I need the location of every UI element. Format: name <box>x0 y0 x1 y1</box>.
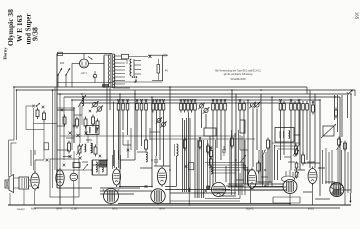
tube V9 mixer base <box>282 176 298 194</box>
arrow pot <box>83 164 88 170</box>
wire det v2 <box>259 150 263 184</box>
trimmer C t5 <box>156 117 162 123</box>
junction X extra <box>61 109 91 127</box>
wire right col verticals <box>323 148 349 193</box>
IF box 1b dark <box>99 161 107 168</box>
wire output to rail <box>10 189 24 205</box>
resistor R36 <box>293 144 300 157</box>
wire speaker <box>14 178 32 188</box>
label EF9a <box>56 207 62 211</box>
resistor R8 <box>155 99 158 113</box>
label 220V <box>60 61 65 65</box>
label AL4 <box>31 207 37 211</box>
resistor R v8b <box>257 161 261 174</box>
resistor R21 <box>243 101 246 113</box>
resistor R34 <box>231 136 234 149</box>
capacitor C m2 <box>222 146 226 156</box>
resistor R7 <box>152 99 155 113</box>
switch S2 mains <box>65 68 70 87</box>
wire left clutter <box>57 108 92 162</box>
resistor R37 <box>302 153 305 166</box>
resistor R32 <box>145 138 148 163</box>
resistor R18 <box>220 99 223 113</box>
tube V6 <box>158 166 167 187</box>
page number 165 <box>355 12 360 20</box>
svg-text:C 80: C 80 <box>71 207 77 211</box>
transformer secondary <box>113 54 115 88</box>
resistor R16 <box>212 99 215 113</box>
wire mid clutter <box>123 128 160 158</box>
resistor R23 <box>76 117 79 129</box>
capacitor C e1 <box>279 99 282 113</box>
resistor R6 <box>145 99 148 113</box>
transformer core <box>111 54 112 89</box>
box filter small <box>185 163 194 170</box>
label C80 <box>71 207 77 211</box>
capacitor C e5 <box>298 99 301 113</box>
resistor R d3 <box>199 137 202 150</box>
resistor R24 <box>84 117 87 129</box>
filament dots <box>132 76 138 78</box>
tube V5 EK2 base <box>103 189 119 204</box>
ground arrow right <box>349 193 351 203</box>
resistor R29 <box>94 145 97 157</box>
coil L n1 <box>211 167 212 175</box>
title 9/38 <box>31 27 40 41</box>
label AZ1 <box>81 71 87 75</box>
wire vertical runs <box>74 56 351 204</box>
capacitor C e4 <box>294 101 297 113</box>
resistor Rv1 <box>36 108 39 120</box>
coil L2 <box>85 144 86 152</box>
resistor R1 <box>117 99 120 113</box>
capacitor C e3 <box>290 99 293 113</box>
capacitor chain C g2 <box>295 162 298 170</box>
junction X left <box>44 143 49 162</box>
wire horizontal connectors <box>57 110 351 204</box>
label speaker <box>17 208 26 211</box>
tube V7b IF <box>212 183 226 197</box>
trimmer C t6 <box>160 121 166 127</box>
label EBF <box>246 207 254 211</box>
resistor R33 <box>184 138 187 151</box>
wire left border <box>56 54 58 189</box>
wire down x82 <box>81 106 83 125</box>
wire nested mid corners <box>244 163 248 185</box>
svg-text:Bei Verwendung der Type EK2 st: Bei Verwendung der Type EK2 statt ECH 11 <box>215 70 261 73</box>
tuning gang C v1 <box>92 101 99 108</box>
capacitor C m1 <box>154 156 158 166</box>
resistor R5 <box>140 99 143 113</box>
wire x162 <box>162 55 164 81</box>
resistor R22 <box>63 115 66 127</box>
wire down x97 <box>96 128 98 146</box>
note text line2 <box>224 73 253 76</box>
IF transformer box 1 <box>93 160 108 175</box>
tube V1 AL4 <box>31 171 39 191</box>
svg-text:EBF2: EBF2 <box>246 207 254 211</box>
switch cluster left <box>32 103 44 108</box>
svg-text:EF9: EF9 <box>56 207 62 211</box>
wire V1 top <box>31 150 44 173</box>
wire down x74 <box>73 108 75 171</box>
wire bus y100 <box>72 100 320 196</box>
resistor R26 <box>96 119 99 131</box>
switch contact X power <box>148 54 168 58</box>
capacitor C elko <box>93 71 97 83</box>
wire power mid <box>72 55 104 87</box>
resistor R19 <box>224 99 227 113</box>
speaker <box>5 175 14 193</box>
label 4V <box>165 69 168 73</box>
output transformer <box>19 177 29 189</box>
resistor R10 <box>162 99 165 113</box>
wire right mid clutter <box>240 135 345 205</box>
tube V2 EBC3 <box>56 168 64 188</box>
resistor R25 <box>92 115 95 127</box>
shield box V2V3 <box>50 159 79 197</box>
resistor tall R31 <box>240 120 245 133</box>
svg-text:165: 165 <box>355 12 360 20</box>
resistor R17 <box>216 99 219 113</box>
resistor R14 <box>190 99 193 113</box>
resistor R d4 <box>207 144 210 155</box>
wire nested right <box>272 143 300 149</box>
magic eye <box>330 183 344 197</box>
resistor Rv2 <box>43 111 46 123</box>
trimmer C t4 <box>254 102 261 109</box>
resistor R12 <box>183 99 186 113</box>
resistor R27 <box>68 141 71 154</box>
title und Super <box>26 14 33 45</box>
junction X5 <box>79 157 82 160</box>
resistor R n1 <box>209 146 212 159</box>
wire tube downleads <box>60 184 313 206</box>
resistor R35 <box>267 138 270 151</box>
svg-text:9/38: 9/38 <box>31 27 40 41</box>
wire V8 right pair <box>263 150 267 186</box>
resistor R20 <box>239 99 242 113</box>
svg-text:AL4: AL4 <box>31 207 37 211</box>
box right mid <box>275 128 294 143</box>
resistor R3 <box>126 99 129 113</box>
wire nested mid top <box>205 163 248 174</box>
wire bus y97 <box>64 97 340 190</box>
capacitor chain C g3 <box>294 171 299 180</box>
switch S1 mains <box>57 68 62 87</box>
capacitor C e2 <box>283 101 286 113</box>
svg-text:220: 220 <box>60 61 65 65</box>
rectifier tube AZ1 <box>72 54 95 69</box>
title Olympic 38 <box>6 9 15 46</box>
note text line1 <box>215 70 261 73</box>
wire bus y87 <box>14 85 307 95</box>
capacitor C d1 arrow <box>241 155 246 162</box>
wire top border <box>57 52 112 55</box>
wire power bottom <box>112 81 163 83</box>
svg-text:AZ 1: AZ 1 <box>81 71 87 75</box>
trimmer C t3 <box>249 102 256 109</box>
potentiometer box right <box>321 124 336 138</box>
fuse F1 <box>122 54 149 59</box>
svg-text:EF9: EF9 <box>159 207 165 211</box>
junction X6 <box>63 149 148 188</box>
resistor R n2 <box>209 157 212 168</box>
svg-text:EK2: EK2 <box>112 207 118 211</box>
transformer taps <box>114 56 121 88</box>
wire V9 loop <box>273 197 300 203</box>
wire left verticals <box>53 87 81 205</box>
wire speaker feed <box>9 87 17 177</box>
switch contact X3 <box>85 132 88 135</box>
label EF9b <box>159 207 165 211</box>
tube V4 EF9 <box>113 167 121 187</box>
note text line3 <box>230 78 246 81</box>
filament winding <box>130 59 134 76</box>
svg-text:gilt die punktierte Schaltung: gilt die punktierte Schaltung <box>224 73 253 76</box>
label EK2 <box>112 207 118 211</box>
wire bus y103 <box>80 103 300 170</box>
resistor R28 <box>77 144 84 156</box>
wire down x88 <box>87 135 89 144</box>
resistor R30 <box>73 163 80 168</box>
coil L1 antenna <box>78 95 86 107</box>
wire det verticals <box>232 130 243 195</box>
tube V7 base <box>151 189 165 203</box>
svg-text:EM1: EM1 <box>308 207 314 211</box>
title Horny <box>3 47 8 60</box>
wire heater taps <box>121 60 127 85</box>
wire V9 pins <box>286 170 293 177</box>
wire det v245 <box>244 140 246 195</box>
capacitor C d2 arrow <box>262 150 266 157</box>
wire nested bottom <box>170 173 240 206</box>
arrow xfmr <box>88 57 93 60</box>
label EM4 <box>308 207 314 211</box>
ground arrow filament <box>135 79 137 83</box>
wire bus y90 <box>17 90 356 96</box>
wire taps right <box>121 87 130 89</box>
capacitor C e7 <box>306 101 309 113</box>
filament taps <box>135 61 141 75</box>
capacitor C n1 <box>204 186 209 192</box>
wire long mid horizontals <box>60 136 255 139</box>
wire V1 down <box>35 187 40 206</box>
wire power line y82.5 <box>57 82 112 84</box>
resistor R9 <box>159 99 162 113</box>
capacitor chain C g1 <box>294 148 299 158</box>
box small mid <box>204 128 216 136</box>
resistor R2 <box>122 99 125 113</box>
tube V10 <box>308 167 317 186</box>
transformer primary <box>104 55 110 87</box>
trimmer C t1 <box>198 103 205 110</box>
switch contact X1 <box>69 132 72 135</box>
wire bus y94 antenna arrow <box>57 89 353 94</box>
svg-text:Horny: Horny <box>3 47 8 60</box>
resistor R15 <box>194 99 197 113</box>
wire left cluster <box>26 106 57 170</box>
switch contact X2 <box>77 134 80 137</box>
coil L3 iron <box>91 143 93 153</box>
tube V8 <box>247 168 256 191</box>
wire bottom rail 2 <box>34 207 340 209</box>
box right mid internals <box>280 131 290 139</box>
resistor R11 <box>180 99 183 113</box>
resistor R4 <box>136 99 139 113</box>
wire left col <box>57 160 92 175</box>
capacitor chain right <box>335 108 347 152</box>
resistor R top right <box>312 101 315 115</box>
wire AF bundle <box>228 184 287 190</box>
junction X4 <box>69 155 72 158</box>
svg-text:Lautspr.: Lautspr. <box>17 208 26 211</box>
title W E 163 <box>15 15 24 42</box>
tuning gang C v2 <box>96 106 103 113</box>
wire bottom rail <box>8 204 351 206</box>
wire V4 top leads <box>113 150 121 169</box>
svg-text:Olympic 38: Olympic 38 <box>6 9 15 46</box>
band filter box <box>86 126 99 135</box>
capacitor C e6 <box>302 101 305 113</box>
tube V3 <box>70 170 78 184</box>
svg-text:4V: 4V <box>165 69 168 73</box>
coil L4 <box>175 144 179 156</box>
resistor R 4V <box>157 59 160 81</box>
svg-text:W E 163: W E 163 <box>15 15 24 42</box>
svg-text:Schaltbild 9/38: Schaltbild 9/38 <box>230 78 246 81</box>
wire bandfilter verticals <box>208 140 216 186</box>
resistor R13 <box>187 99 190 113</box>
trimmer C t2 <box>203 107 210 114</box>
